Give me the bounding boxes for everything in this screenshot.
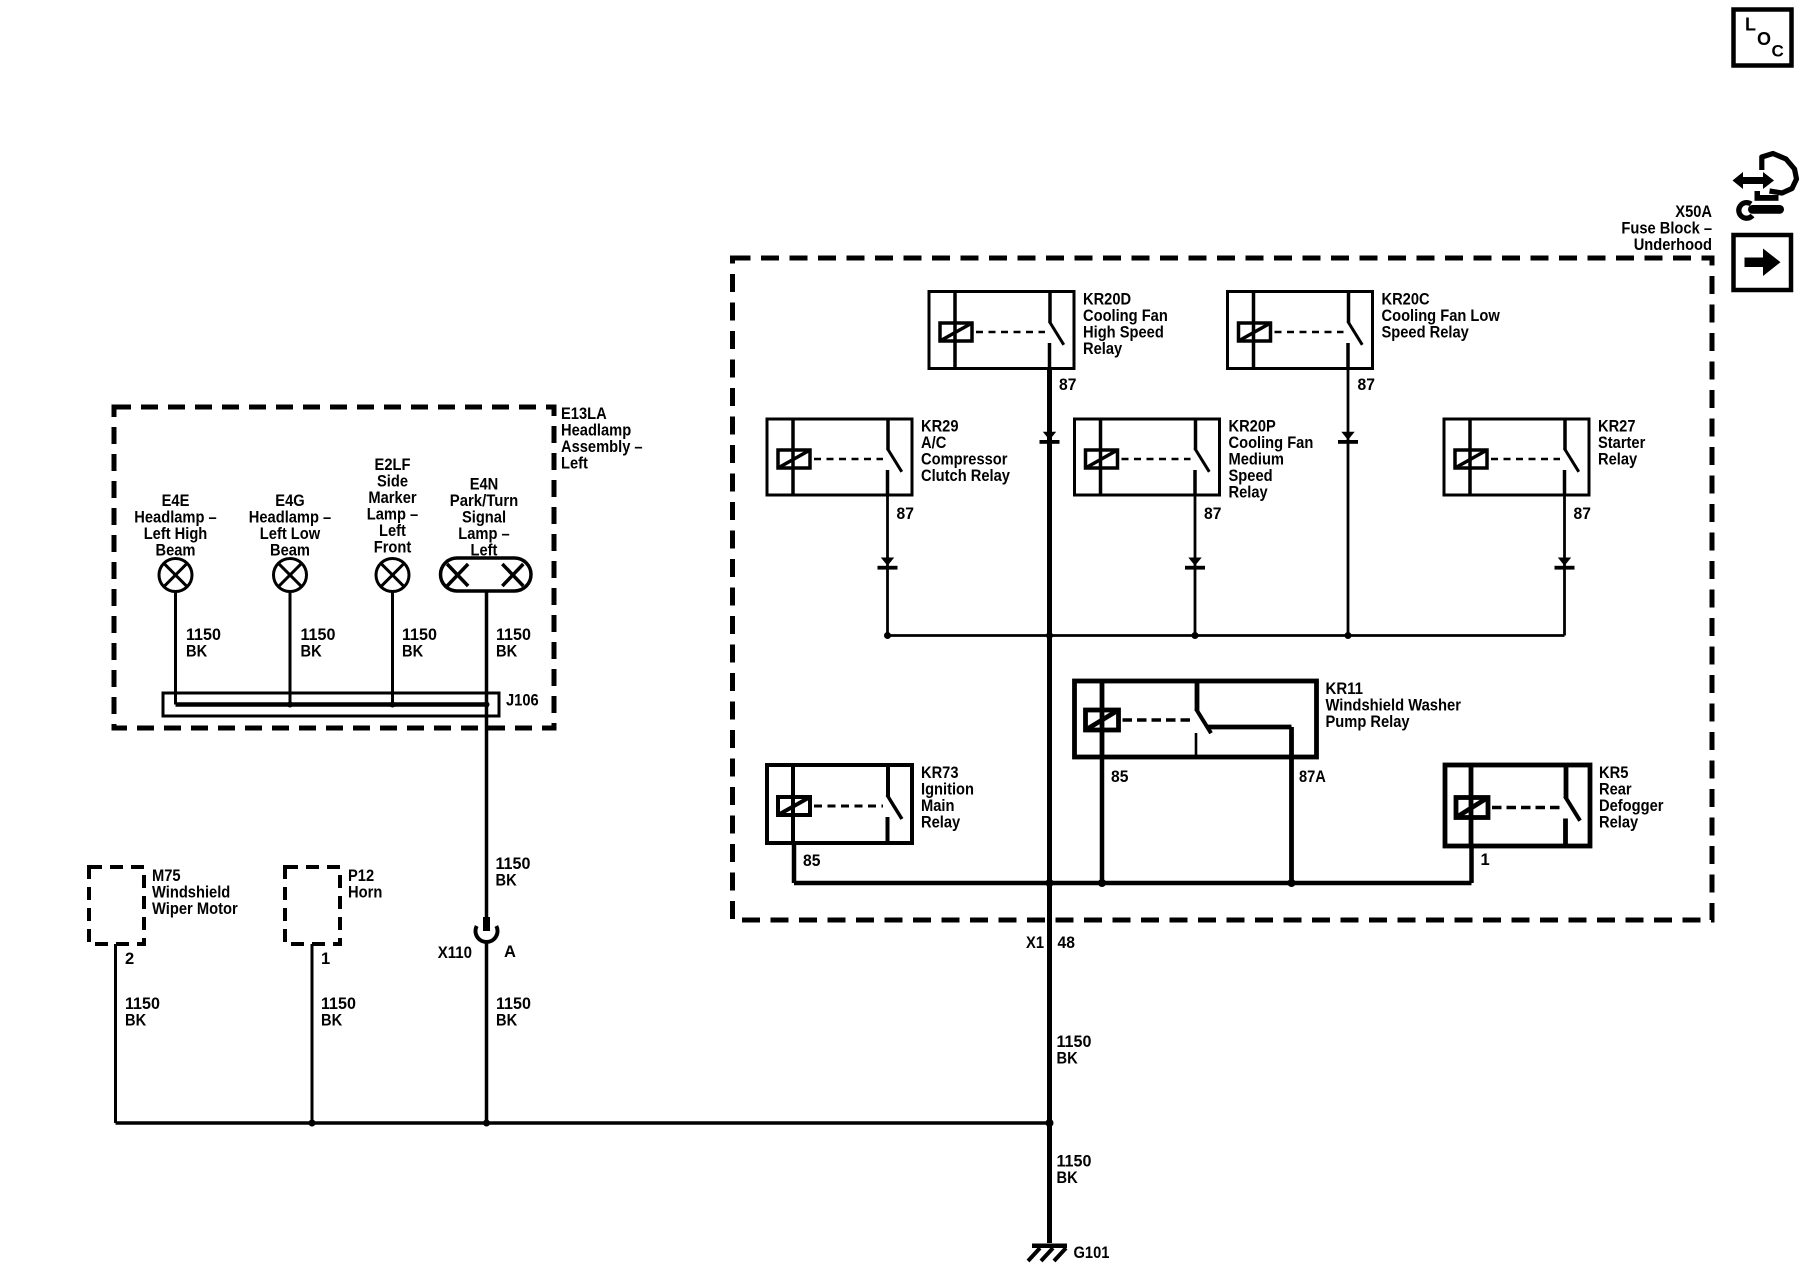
svg-text:BK: BK [496, 1012, 517, 1030]
bottom ground bus wire y=1123 [116, 1121, 1050, 1125]
junction dot X110/bottom bus [483, 1120, 490, 1127]
svg-text:C: C [1772, 42, 1784, 61]
svg-text:Relay: Relay [1598, 451, 1638, 469]
page arrow on KR20P wire [1188, 558, 1201, 566]
svg-text:1150: 1150 [301, 626, 336, 644]
junction dot main/bottom bus [1046, 1119, 1054, 1127]
relay KR20P Cooling Fan Medium Speed Relay [1075, 419, 1220, 495]
page arrow on KR27 wire [1558, 558, 1571, 566]
svg-text:Beam: Beam [156, 542, 196, 560]
svg-text:M75: M75 [152, 867, 181, 885]
svg-text:87A: 87A [1299, 768, 1326, 786]
svg-text:E4G: E4G [275, 492, 304, 510]
svg-text:Starter: Starter [1598, 434, 1646, 452]
ground G101 symbol [1032, 1244, 1067, 1249]
svg-text:L: L [1745, 15, 1756, 35]
svg-text:X1: X1 [1026, 934, 1044, 952]
svg-text:BK: BK [1057, 1050, 1078, 1068]
svg-text:A/C: A/C [921, 434, 946, 452]
relay KR5 Rear Defogger Relay [1445, 765, 1590, 846]
svg-text:A: A [504, 943, 516, 961]
wire M75 pin 2 down [114, 944, 117, 1123]
svg-text:Main: Main [921, 797, 955, 815]
junction dot KR11-85/ground bus [1098, 879, 1106, 887]
relay KR29 A/C Compressor Clutch Relay [767, 419, 912, 495]
svg-text:E13LA: E13LA [561, 405, 607, 423]
svg-text:Fuse Block –: Fuse Block – [1621, 220, 1712, 238]
svg-text:Defogger: Defogger [1599, 797, 1664, 815]
svg-text:1150: 1150 [1057, 1153, 1092, 1171]
svg-text:Wiper Motor: Wiper Motor [152, 900, 238, 918]
svg-text:Left: Left [471, 542, 498, 560]
svg-text:KR20C: KR20C [1382, 291, 1430, 309]
svg-text:48: 48 [1058, 934, 1075, 952]
fuse block X50A dashed outline [733, 258, 1713, 920]
svg-text:Side: Side [377, 473, 408, 491]
svg-text:Lamp –: Lamp – [458, 525, 509, 543]
wire KR73 pin 85 down [792, 843, 797, 883]
wire KR20P pin 87 [1194, 495, 1197, 636]
svg-text:87: 87 [897, 505, 914, 523]
wire E2LF to J106 [391, 592, 394, 705]
junction dot KR11-87A/ground bus [1288, 879, 1296, 887]
svg-text:BK: BK [301, 643, 322, 661]
svg-text:P12: P12 [348, 867, 374, 885]
svg-text:KR73: KR73 [921, 764, 959, 782]
junction dot KR29/bus [884, 632, 891, 639]
wire E4N down from lamp [485, 591, 489, 917]
relay KR73 Ignition Main Relay [767, 765, 912, 843]
svg-text:E4N: E4N [470, 476, 499, 494]
svg-text:Left High: Left High [144, 525, 208, 543]
svg-text:BK: BK [1057, 1169, 1078, 1187]
page arrow on KR20C wire [1341, 432, 1354, 440]
icon: forward arrow box [1734, 235, 1792, 290]
svg-text:E2LF: E2LF [375, 456, 411, 474]
svg-text:87: 87 [1358, 376, 1375, 394]
svg-text:1150: 1150 [321, 995, 356, 1013]
svg-text:87: 87 [1574, 505, 1591, 523]
svg-text:BK: BK [402, 643, 423, 661]
wire KR11 pin 85 down [1100, 757, 1105, 883]
svg-text:Headlamp –: Headlamp – [134, 509, 216, 527]
svg-text:O: O [1757, 29, 1771, 49]
lamp E4N Park/Turn Signal Lamp - Left [441, 558, 532, 591]
wire P12 pin 1 down [311, 944, 314, 1123]
svg-text:1150: 1150 [496, 995, 531, 1013]
headlamp assembly E13LA dashed outline [114, 407, 554, 728]
svg-text:1150: 1150 [402, 626, 437, 644]
svg-text:Lamp –: Lamp – [367, 506, 418, 524]
connector X110 pin A symbol [483, 917, 490, 931]
icon: service tools (double arrow, hook, wrench) [1733, 172, 1775, 189]
svg-text:J106: J106 [506, 692, 539, 710]
component P12 Horn dashed box [285, 867, 340, 944]
svg-text:KR11: KR11 [1326, 680, 1364, 698]
relay KR11 Windshield Washer Pump Relay [1075, 681, 1317, 757]
svg-text:KR29: KR29 [921, 418, 959, 436]
svg-text:Speed Relay: Speed Relay [1382, 324, 1470, 342]
svg-text:Medium: Medium [1229, 451, 1285, 469]
junction dot E4N [484, 702, 490, 708]
svg-text:Marker: Marker [368, 489, 417, 507]
svg-text:85: 85 [1111, 768, 1128, 786]
svg-text:BK: BK [496, 643, 517, 661]
svg-text:BK: BK [125, 1012, 146, 1030]
svg-text:87: 87 [1204, 505, 1221, 523]
svg-text:KR20D: KR20D [1083, 291, 1131, 309]
svg-text:Signal: Signal [462, 509, 506, 527]
svg-text:1: 1 [321, 950, 330, 968]
wire E4G to J106 [289, 592, 292, 705]
junction dot KR20C/bus [1345, 632, 1352, 639]
svg-text:KR20P: KR20P [1229, 418, 1276, 436]
svg-text:Park/Turn: Park/Turn [450, 492, 519, 510]
junction dot KR20P/bus [1192, 632, 1199, 639]
relay KR27 Starter Relay [1444, 419, 1589, 495]
svg-text:Rear: Rear [1599, 781, 1632, 799]
relay KR20C Cooling Fan Low Speed Relay [1228, 292, 1373, 369]
svg-text:Left Low: Left Low [260, 525, 321, 543]
svg-text:Left: Left [561, 455, 588, 473]
wire E4E to J106 [174, 592, 177, 705]
svg-text:X110: X110 [438, 944, 472, 962]
svg-text:G101: G101 [1074, 1244, 1110, 1262]
svg-text:Clutch Relay: Clutch Relay [921, 467, 1011, 485]
svg-text:2: 2 [125, 950, 134, 968]
wire below X110 [485, 943, 489, 1124]
lamp E4G Headlamp - Left Low Beam [274, 559, 307, 592]
lamp E4E Headlamp - Left High Beam [159, 559, 192, 592]
svg-text:BK: BK [321, 1012, 342, 1030]
svg-text:High Speed: High Speed [1083, 324, 1164, 342]
svg-text:1150: 1150 [186, 626, 221, 644]
svg-text:Compressor: Compressor [921, 451, 1008, 469]
junction dot main/ground bus [1046, 879, 1054, 887]
svg-text:Speed: Speed [1229, 467, 1273, 485]
svg-text:Assembly –: Assembly – [561, 438, 643, 456]
svg-text:Left: Left [379, 522, 406, 540]
svg-text:Horn: Horn [348, 884, 382, 902]
bus wire (87 outputs) y=635.5 [888, 634, 1565, 637]
svg-text:Front: Front [374, 539, 412, 557]
svg-text:Relay: Relay [921, 814, 961, 832]
junction dot E2LF [390, 702, 396, 708]
ground bus wire y=883 [794, 881, 1472, 886]
svg-text:1150: 1150 [1057, 1033, 1092, 1051]
lamp E2LF Side Marker Lamp - Left Front [376, 559, 409, 592]
page arrow on KR29 wire [881, 558, 894, 566]
svg-text:Windshield Washer: Windshield Washer [1326, 697, 1462, 715]
svg-text:Underhood: Underhood [1634, 236, 1712, 254]
wire KR11 pin 87A down [1289, 757, 1294, 883]
component M75 Windshield Wiper Motor dashed box [89, 867, 144, 944]
svg-text:Headlamp –: Headlamp – [249, 509, 331, 527]
svg-text:Cooling Fan: Cooling Fan [1229, 434, 1314, 452]
svg-text:BK: BK [186, 643, 207, 661]
svg-text:87: 87 [1059, 376, 1076, 394]
junction dot P12/bottom bus [309, 1120, 316, 1127]
svg-text:Cooling Fan: Cooling Fan [1083, 307, 1168, 325]
J106 ground bus wire [176, 702, 489, 707]
svg-text:Relay: Relay [1229, 484, 1269, 502]
svg-text:X50A: X50A [1675, 203, 1712, 221]
wire KR29 pin 87 [886, 495, 889, 636]
svg-text:Beam: Beam [270, 542, 310, 560]
junction dot main/bus [1046, 632, 1053, 639]
svg-text:Ignition: Ignition [921, 781, 974, 799]
page arrow on KR20D wire [1043, 432, 1056, 440]
icon: LOC legend box [1734, 10, 1792, 66]
wire KR20D pin 87 main ground feed (bold) [1047, 369, 1052, 1244]
svg-text:Cooling Fan Low: Cooling Fan Low [1382, 307, 1500, 325]
svg-text:85: 85 [803, 852, 820, 870]
wire KR5 pin 1 down [1469, 846, 1474, 883]
svg-text:1150: 1150 [496, 855, 531, 873]
junction block J106 [163, 693, 499, 716]
svg-text:1150: 1150 [496, 626, 531, 644]
svg-text:KR27: KR27 [1598, 418, 1636, 436]
svg-text:1150: 1150 [125, 995, 160, 1013]
svg-text:Windshield: Windshield [152, 884, 230, 902]
svg-text:Relay: Relay [1599, 814, 1639, 832]
svg-text:E4E: E4E [162, 492, 190, 510]
svg-text:BK: BK [496, 872, 517, 890]
relay KR20D Cooling Fan High Speed Relay [929, 292, 1074, 369]
svg-text:Pump Relay: Pump Relay [1326, 713, 1411, 731]
wire KR20C pin 87 [1347, 369, 1350, 636]
wire KR27 pin 87 [1563, 495, 1566, 636]
svg-text:Relay: Relay [1083, 340, 1123, 358]
svg-text:KR5: KR5 [1599, 764, 1628, 782]
junction dot E4G [287, 702, 293, 708]
svg-text:Headlamp: Headlamp [561, 422, 631, 440]
svg-text:1: 1 [1481, 851, 1490, 869]
